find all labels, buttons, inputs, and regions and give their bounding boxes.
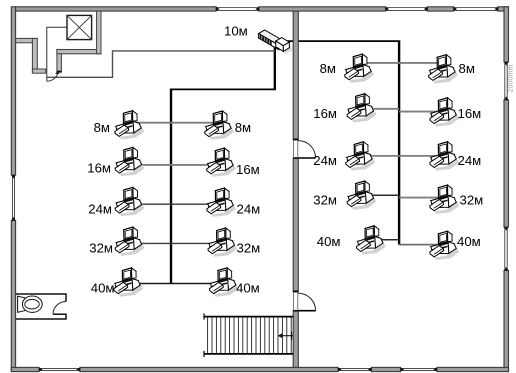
computer PC L5 left	[114, 268, 143, 297]
window: bottom wall right 1	[338, 367, 372, 369]
wc door leaf	[53, 313, 67, 315]
svg-text:40м: 40м	[236, 281, 260, 296]
wall: elevator room wall D	[57, 50, 101, 54]
svg-text:8м: 8м	[459, 61, 475, 76]
window: bottom wall right 2	[401, 367, 438, 369]
wall: top segment 3	[428, 7, 454, 11]
window arrows top W3	[454, 7, 458, 11]
svg-text:16м: 16м	[87, 160, 111, 175]
computer PC L4 left	[115, 227, 144, 256]
window arrows bottom right 1	[338, 367, 342, 371]
wc door swing arc	[53, 302, 66, 315]
window: top wall W2	[386, 7, 428, 9]
wall: right segment 1	[504, 7, 509, 62]
toilet tank	[18, 296, 26, 312]
door 2 middle wall (stairwell): leaf	[298, 310, 315, 312]
svg-text:24м: 24м	[313, 153, 337, 168]
wall end caps: middle wall door 1	[293, 139, 298, 141]
wire: left room feed horizontal	[170, 88, 276, 90]
wall: top segment 1	[14, 7, 216, 11]
window arrows left wall	[11, 175, 15, 179]
window: top wall W1	[216, 7, 259, 9]
wire: row 8m left room	[128, 122, 218, 124]
wire: row 8m right room	[358, 62, 442, 64]
svg-text:2000mm: 2000mm	[505, 65, 514, 93]
svg-text:40м: 40м	[317, 234, 341, 249]
wall: corridor wall B2 stub	[32, 69, 45, 73]
computer PC R4 right	[430, 185, 459, 214]
wire: right room feed from hub	[282, 40, 400, 42]
wire: row 32m right room left seg	[360, 194, 399, 196]
window arrows right wall upper	[504, 62, 509, 66]
computer PC L1 left	[115, 111, 144, 140]
window arrows top W2	[386, 7, 390, 11]
wire: row 40m right room left seg	[369, 239, 399, 241]
computer PC R2 right	[430, 98, 459, 127]
window arrows right wall lower	[504, 227, 509, 231]
window arrows top W1	[216, 7, 220, 11]
wire: row 16m right room left seg	[360, 108, 399, 110]
computer PC R5 right	[430, 231, 459, 260]
svg-text:32м: 32м	[460, 193, 484, 208]
svg-text:16м: 16м	[236, 162, 260, 177]
wall: elevator room wall E	[97, 11, 101, 54]
window: right wall lower	[504, 227, 506, 271]
svg-text:32м: 32м	[313, 193, 337, 208]
wall: bottom segment 2	[80, 367, 338, 371]
wall: right segment 3	[504, 271, 509, 372]
door 1 in middle wall: jamb lines	[294, 140, 298, 311]
svg-text:24м: 24м	[237, 201, 261, 216]
computer PC R4 left	[347, 181, 376, 210]
stairs treads	[208, 317, 292, 354]
computer PC L2 right	[207, 148, 236, 177]
wall: middle vertical segment 1	[293, 11, 298, 140]
wall: left segment 2	[11, 221, 15, 372]
hub shadow	[284, 46, 293, 55]
computer PC L1 right	[205, 111, 234, 140]
svg-text:24м: 24м	[458, 153, 482, 168]
hub right block front	[276, 41, 284, 51]
wire: right room trunk	[398, 41, 400, 245]
door 2 middle wall: swing arc	[298, 293, 315, 310]
computer PC L5 right	[209, 268, 238, 297]
computer PC R5 left	[357, 226, 386, 255]
wall: corridor wall B	[32, 38, 37, 72]
svg-text:16м: 16м	[313, 106, 337, 121]
hub front face	[259, 34, 279, 50]
computer PC R2 left	[347, 94, 376, 123]
window arrows bottom right 2	[401, 367, 405, 371]
elevator X diagonals	[67, 15, 92, 39]
hub top face	[259, 30, 285, 45]
window: bottom wall left	[39, 367, 80, 369]
wire: riser line to elevator	[47, 27, 67, 81]
wall end caps: middle wall door 2	[293, 290, 298, 292]
elevator shaft box	[67, 15, 92, 39]
stairs bottom rail	[204, 353, 294, 355]
computer PC R1 right	[429, 55, 458, 84]
wall: corridor wall A	[16, 38, 37, 42]
wire: row 40m left room	[127, 283, 222, 285]
computer PC R3 right	[430, 142, 459, 171]
wire: left room trunk	[170, 89, 172, 284]
computer PC R1 left	[345, 54, 374, 83]
hub ports	[260, 35, 272, 46]
computer PC R3 left	[346, 142, 375, 171]
wall: left segment 1	[11, 7, 15, 175]
wire: row 24m right room	[358, 155, 443, 157]
hub right block side	[283, 42, 289, 51]
computer PC L4 right	[208, 228, 237, 257]
svg-text:8м: 8м	[235, 120, 251, 135]
window arrows bottom left	[39, 367, 43, 371]
wall: bottom segment 3	[372, 367, 401, 371]
door 1 middle wall: leaf	[298, 157, 315, 159]
wall: right segment 2	[504, 100, 509, 227]
stairs top rail	[204, 316, 294, 318]
wall: elevator room wall C	[57, 50, 62, 73]
wire: cable hub down-drop	[274, 43, 276, 89]
door 1 middle wall: swing arc	[298, 141, 315, 158]
wc room outline with door	[16, 294, 66, 319]
svg-text:10м: 10м	[224, 23, 248, 38]
wall: middle vertical segment 3	[293, 311, 298, 368]
toilet bowl inner	[25, 299, 39, 309]
wire: gray cable hub to corridor	[47, 51, 275, 77]
svg-text:40м: 40м	[457, 234, 481, 249]
stairs direction arrow	[281, 335, 293, 337]
wire: row 16m right room right seg	[399, 111, 443, 113]
wall end cap: elevator wall C bottom	[57, 71, 62, 73]
wire: row 24m left room	[128, 203, 220, 205]
svg-text:24м: 24м	[88, 201, 112, 216]
wall: top segment 4	[498, 7, 509, 11]
stairs left end ticks	[203, 313, 205, 319]
computer PC L3 left	[115, 187, 144, 216]
wall: middle vertical segment 2	[293, 158, 298, 292]
hub right block top	[276, 38, 290, 46]
svg-text:8м: 8м	[320, 61, 336, 76]
wire: row 40m right room right seg	[399, 244, 443, 246]
corridor door arc	[47, 72, 58, 81]
window: right wall upper	[504, 62, 506, 100]
svg-text:8м: 8м	[94, 120, 110, 135]
svg-text:16м: 16м	[458, 106, 482, 121]
wall: bottom segment 1	[11, 367, 39, 371]
wire: row 16m left room	[128, 164, 220, 166]
wall: top segment 2	[259, 7, 386, 11]
corridor door arrowhead	[55, 70, 59, 74]
wall: bottom segment 4	[437, 367, 509, 371]
wire: row 32m left room	[128, 242, 221, 244]
window: left wall	[11, 175, 13, 221]
computer PC L3 right	[207, 188, 236, 217]
wire: row 32m right room right seg	[399, 197, 443, 199]
computer PC L2 left	[115, 147, 144, 176]
svg-text:32м: 32м	[89, 241, 113, 256]
window: top wall W3	[454, 7, 499, 9]
svg-text:32м: 32м	[237, 241, 261, 256]
svg-text:40м: 40м	[91, 281, 115, 296]
toilet bowl outer	[22, 296, 42, 312]
